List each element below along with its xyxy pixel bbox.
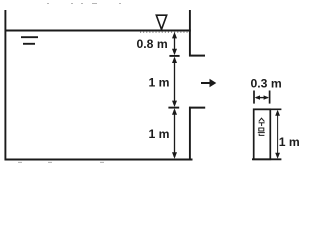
- svg-text:1 m: 1 m: [149, 76, 170, 90]
- dimension line 1 m (lower wall): [172, 108, 177, 158]
- water surface line: [5, 30, 191, 32]
- water surface hatch dots: [140, 31, 189, 33]
- orifice lower lip: [189, 107, 205, 109]
- tank bottom floor: [5, 159, 193, 161]
- gate top edge extension (tick): [253, 108, 281, 110]
- flow arrow: [201, 79, 216, 87]
- scan specks top: [47, 3, 121, 5]
- dimension line 1 m (orifice): [172, 57, 177, 107]
- free surface triangle symbol: [156, 15, 166, 29]
- tank left wall: [4, 10, 6, 160]
- svg-text:1 m: 1 m: [149, 127, 170, 141]
- gate bottom edge extension (tick): [252, 158, 281, 160]
- dimension tick 1: [169, 55, 179, 57]
- tank right wall lower section: [189, 107, 191, 161]
- gate hangul label "su" (수): [259, 118, 265, 126]
- svg-text:0.3 m: 0.3 m: [251, 77, 282, 91]
- dimension line 0.8 m: [172, 32, 177, 55]
- dimension tick 2: [168, 107, 179, 109]
- orifice upper lip: [189, 55, 205, 57]
- tank right wall upper section: [189, 10, 191, 56]
- water symbol dashes: [21, 36, 38, 38]
- width dimension bars 0.3 m: [253, 91, 255, 104]
- width dimension arrow 0.3 m: [255, 95, 269, 99]
- gate rectangle: [254, 109, 271, 159]
- svg-text:1 m: 1 m: [279, 135, 300, 149]
- floor hatch smudges: [18, 161, 104, 163]
- height dimension arrow 1 m (gate): [275, 110, 280, 159]
- gate hangul label "mun" (문): [258, 128, 265, 135]
- svg-text:0.8 m: 0.8 m: [137, 37, 168, 51]
